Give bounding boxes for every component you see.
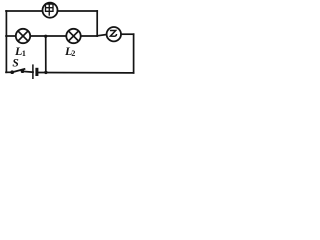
switch S lever	[12, 69, 25, 73]
meter Yi (乙) glyph	[110, 31, 117, 37]
wire bottom rail: left corner to switch	[6, 71, 12, 73]
wire middle row: junction to meter Yi	[97, 35, 107, 36]
wire middle node to bottom rail (parallel branch)	[45, 36, 47, 73]
wire middle row: L1 to L2	[30, 35, 66, 37]
battery short thick plate	[35, 68, 38, 76]
wire middle row: L2 to junction	[81, 35, 98, 37]
meter Yi (乙) circle	[107, 27, 121, 41]
wire meter Yi to right rail	[121, 33, 134, 35]
svg-text:S: S	[12, 58, 18, 70]
wire bottom rail: right of battery	[38, 72, 134, 74]
wire junction vertical (top rail to middle node)	[96, 11, 98, 36]
lamp L2 cross	[69, 31, 79, 41]
junction node on bottom rail	[44, 71, 47, 74]
junction node on middle row	[44, 35, 47, 38]
meter Jia (甲) glyph	[46, 4, 54, 16]
meter Jia (甲) circle	[43, 3, 58, 18]
wire top rail right segment	[58, 10, 98, 12]
wire left rail	[5, 11, 7, 72]
wire top rail left segment	[6, 10, 43, 12]
switch S terminal dot 2	[21, 69, 25, 73]
svg-text:1: 1	[22, 49, 26, 58]
switch S terminal dot 1	[10, 70, 14, 74]
wire bottom rail: switch to battery	[22, 70, 33, 73]
svg-text:2: 2	[71, 49, 75, 58]
lamp L1 circle	[16, 29, 30, 43]
wire middle row: left rail to lamp L1	[6, 35, 16, 37]
battery long plate	[32, 64, 34, 79]
lamp L2 circle	[66, 29, 80, 43]
lamp L1 cross	[18, 31, 28, 41]
wire right rail	[133, 34, 135, 73]
